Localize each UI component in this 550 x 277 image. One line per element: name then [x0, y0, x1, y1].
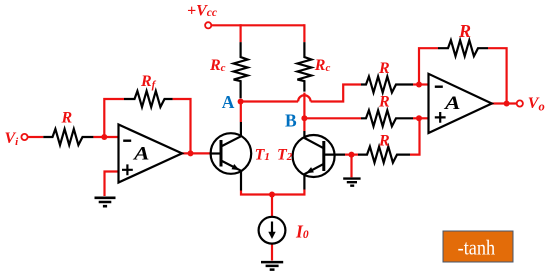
node U1 output node: [188, 150, 194, 156]
svg-text:R: R: [378, 60, 390, 77]
resistor Rc right: [297, 42, 311, 92]
current source I0: [259, 217, 286, 244]
svg-text:T2: T2: [277, 147, 293, 164]
wire T2 emitter to common node: [272, 190, 304, 195]
svg-text:Rc: Rc: [314, 57, 331, 74]
wire node A to first R (with hop): [241, 100, 299, 102]
svg-text:-tanh: -tanh: [458, 235, 496, 259]
svg-text:Rc: Rc: [209, 57, 226, 74]
resistor Rc left: [234, 42, 248, 98]
ground under I0: [261, 262, 283, 270]
wire T1 emitter to common node: [241, 191, 272, 195]
wire R to op-amp U1 minus input: [93, 136, 118, 138]
svg-text:I0: I0: [295, 221, 309, 241]
node T2 base node: [349, 152, 355, 158]
wire U1 output to T1 base: [182, 152, 211, 154]
wire right Rc to node B: [303, 93, 305, 119]
wire node A to T1 collector: [240, 102, 242, 123]
wire Vcc rail: [212, 24, 305, 26]
wire node B to second R: [304, 117, 361, 119]
wire second R to op-amp U2 plus input: [413, 117, 429, 119]
wire T2 base to node, third R, up to plus input: [345, 154, 358, 156]
svg-text:A: A: [132, 142, 150, 164]
wire Vcc to right Rc: [303, 24, 305, 42]
resistor R row2: [361, 110, 413, 126]
svg-text:B: B: [285, 110, 297, 130]
resistor R feedback U2: [438, 40, 488, 56]
wire U2 feedback loop: [419, 48, 438, 84]
wire Vcc to left Rc: [240, 24, 242, 42]
svg-text:Rf: Rf: [140, 73, 157, 91]
node Vi terminal: [21, 134, 27, 140]
wire Vi to resistor R: [28, 136, 43, 138]
node input node: [101, 134, 107, 140]
resistor Rf: [124, 91, 173, 107]
node Vcc terminal: [205, 22, 211, 28]
wire U2 output to Vo terminal: [492, 102, 517, 104]
wire common emitter node to current source I0: [271, 195, 273, 218]
node U2 output node: [504, 101, 510, 107]
svg-text:R: R: [378, 93, 390, 110]
ground under U1: [95, 198, 116, 206]
node node A junction: [238, 99, 244, 105]
wire Rf to U1 output: [173, 99, 191, 153]
svg-text:T1: T1: [255, 147, 270, 164]
node U2 plus node: [416, 115, 422, 121]
wire U1 plus input to ground: [105, 172, 119, 197]
svg-text:Vo: Vo: [528, 95, 545, 114]
svg-text:A: A: [222, 92, 235, 112]
wire input node up to Rf: [104, 99, 124, 137]
svg-text:+Vcc: +Vcc: [187, 2, 217, 19]
resistor R row3: [358, 147, 410, 163]
resistor R input: [43, 129, 93, 145]
wire first R to op-amp U2 minus input: [413, 83, 429, 85]
-tanh function box: [443, 231, 513, 262]
node U2 minus node: [416, 82, 422, 88]
wire ground stub at T2 base node: [350, 155, 352, 178]
node common emitter node: [269, 192, 275, 198]
svg-text:Vi: Vi: [5, 130, 20, 148]
node node B junction: [301, 115, 307, 121]
svg-text:R: R: [378, 133, 390, 150]
op-amp U1: [119, 125, 183, 183]
node Vo terminal: [517, 100, 523, 106]
transistor T2: [293, 131, 345, 190]
op-amp U2: [429, 74, 492, 133]
wire I0 to ground: [271, 244, 273, 261]
svg-text:R: R: [61, 109, 73, 126]
ground at T2 base node: [343, 179, 360, 186]
resistor R row1: [361, 77, 413, 93]
svg-text:A: A: [443, 92, 461, 114]
wire node B to T2 collector: [303, 118, 305, 131]
transistor T1: [211, 122, 252, 191]
svg-text:R: R: [458, 21, 471, 41]
